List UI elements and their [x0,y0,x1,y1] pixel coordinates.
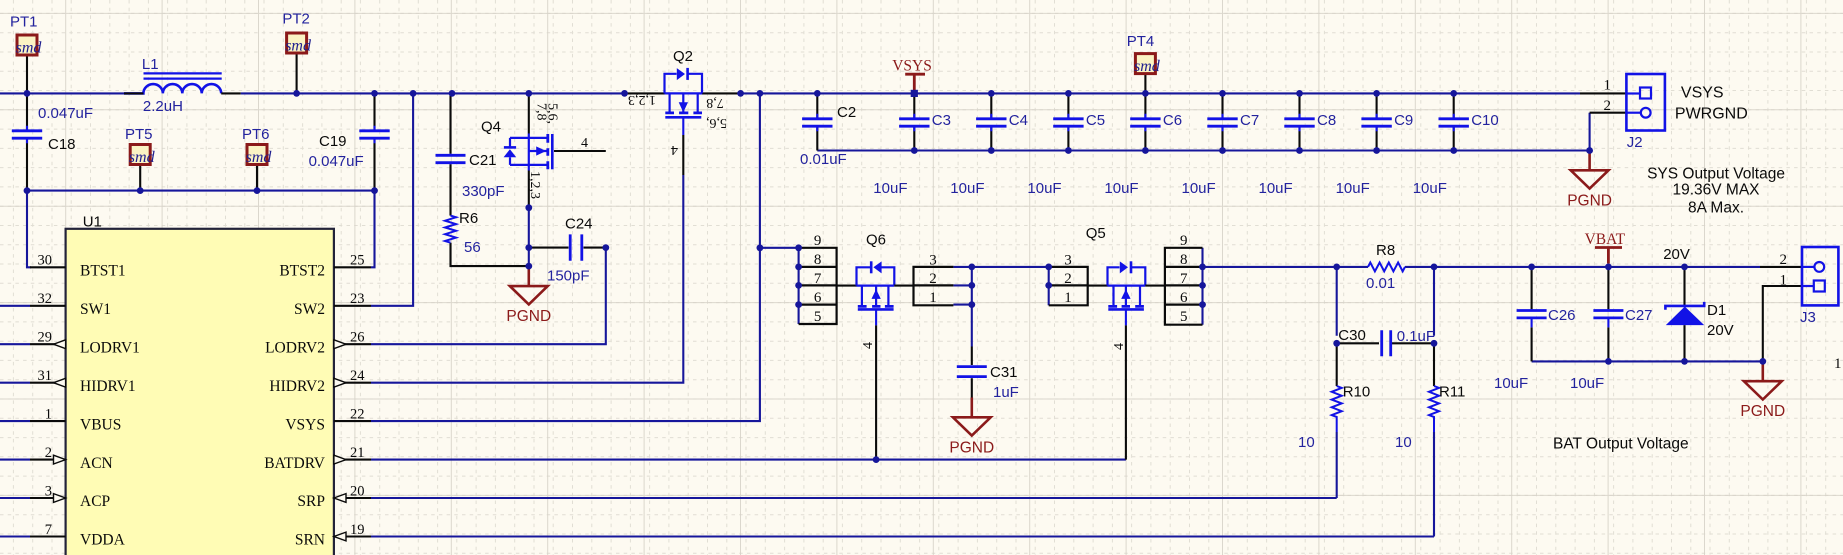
wire: PGND rail riser to J2 pin 2 [1589,113,1591,151]
capacitor C9 [1376,93,1378,150]
transistor Q2 (N-MOSFET rotated, high-side) [665,92,703,94]
svg-text:C7: C7 [1240,112,1259,129]
svg-text:PT2: PT2 [282,11,310,28]
svg-text:Q6: Q6 [866,231,886,248]
capacitor C31 1uF [957,367,987,377]
svg-text:4: 4 [1112,343,1127,350]
capacitor C3 [913,93,915,150]
capacitor C19 [373,93,375,190]
svg-text:21: 21 [350,445,365,461]
svg-text:26: 26 [350,330,365,346]
svg-text:smd: smd [129,149,156,166]
U1 pin 32 SW1 [30,305,66,307]
wire: VSYS pin 22 riser x=759.9 to top rail [371,93,760,421]
junction dots C30 row [1333,340,1340,347]
svg-text:C8: C8 [1317,112,1336,129]
svg-text:BTST2: BTST2 [279,263,325,280]
wire: main top rail (SW node / VSYS rail) y=93.4 [0,92,124,94]
capacitor C24 150pF [570,234,582,260]
svg-text:VSYS: VSYS [1681,85,1724,102]
svg-text:4: 4 [861,342,876,349]
U1 pin 1 VBUS [30,420,66,422]
svg-text:56: 56 [464,239,481,256]
junction dots left stack bus [795,244,802,251]
svg-text:0.047uF: 0.047uF [309,153,364,170]
wire: mid-stack node to Q5 left stack y=266.9 [972,266,1049,268]
svg-text:24: 24 [350,368,365,384]
junction dots on top rail [24,90,31,97]
capacitor C5 [1067,93,1069,150]
svg-text:10uF: 10uF [950,180,984,197]
wire: LODRV2 pin 26 to C24/Q4-gate node riser x=605.8 [371,248,606,345]
transistor Q5 (P-MOSFET pass, body diode right) [1108,285,1146,287]
U1 pin 3 ACP [30,497,66,499]
svg-text:BTST1: BTST1 [80,263,126,280]
svg-text:1: 1 [929,290,937,306]
svg-text:1: 1 [45,406,52,422]
U1 pin 23 SW2 [334,305,371,307]
resistor R8 0.01 [1368,263,1405,272]
capacitor C26 10uF [1517,311,1547,318]
svg-text:1: 1 [1834,356,1842,372]
junction dots battery sense rail [1333,264,1340,271]
junction dots right stack bus [1199,264,1206,271]
svg-text:VSYS: VSYS [892,58,932,75]
svg-text:1,2,3: 1,2,3 [628,92,656,107]
inductor L1 2.2uH [144,73,222,78]
svg-text:J2: J2 [1627,134,1643,151]
svg-text:C26: C26 [1548,307,1576,324]
svg-text:C9: C9 [1394,112,1413,129]
wire: right stack bus x=1202.5 (Q5 drain pins) [1201,248,1203,325]
U1 pin 30 BTST1 [30,266,66,268]
junction dots Q5 left stack bus [1045,264,1052,271]
op-amp/controller U1 (bq24715 style) body [66,229,334,555]
U1 output arrows LODRV1/HIDRV1 (left, pointing out) [54,340,66,349]
svg-text:SYS Output Voltage: SYS Output Voltage [1647,166,1785,183]
svg-text:29: 29 [38,330,53,346]
svg-text:SRN: SRN [295,532,325,549]
svg-text:10uF: 10uF [1336,180,1370,197]
wire: C26 riser [1531,267,1533,362]
U1 pin 7 VDDA [30,535,66,537]
test point PT4 (smd pad) [1135,54,1155,74]
wire: Q5 drain lead [1145,285,1165,287]
svg-text:Q4: Q4 [481,119,501,136]
wire: PT6 stub [256,165,258,191]
wire: battery bottom rail y=361.4 [1532,360,1763,362]
svg-text:0.1uF: 0.1uF [1397,328,1435,345]
wire: SW1 pin 32 to left edge [0,305,30,307]
svg-text:8A Max.: 8A Max. [1688,200,1744,217]
svg-text:Q2: Q2 [673,48,693,65]
wire: ACP pin 3 to left edge [0,497,30,499]
svg-text:0.047uF: 0.047uF [38,105,93,122]
svg-text:10uF: 10uF [1413,180,1447,197]
capacitor C10 [1453,93,1455,150]
U1 output arrows LODRV2/HIDRV2/BATDRV (right, pointing out) [334,340,346,349]
U1 pin 22 VSYS [334,420,371,422]
svg-text:PT6: PT6 [242,126,270,143]
svg-text:20V: 20V [1663,246,1690,263]
wire: Q4 drain from top rail x=528.8 [528,93,530,133]
svg-text:7: 7 [1180,271,1188,287]
connector J3 BAT output [1802,247,1838,305]
power port PGND (under Q4) [527,266,530,286]
svg-text:ACN: ACN [80,455,113,472]
svg-text:C10: C10 [1471,112,1499,129]
wire: PT2 stub [296,53,298,93]
wire: C24 left lead [529,247,569,249]
power port PGND (under J2) [1588,151,1591,171]
wire: PT4 stub [1144,74,1146,94]
svg-text:C24: C24 [565,215,593,232]
wire: VBAT sense rail y=266.9 from right stack to J3 [1203,266,1369,268]
wire: Q6 drain lead [894,285,913,287]
resistor R10 10 [1332,386,1342,432]
svg-text:C31: C31 [990,364,1018,381]
wire: LODRV1 pin 29 to left edge [0,343,30,345]
junction dots on C18/C19 link [24,187,31,194]
svg-text:VDDA: VDDA [80,532,126,549]
svg-text:R10: R10 [1343,384,1371,401]
svg-text:smd: smd [285,37,312,54]
wire: R8 left node riser to C30/R10 [1336,267,1338,336]
header right stack (pins 9,8,7,6,5 of Q5) [1165,248,1203,325]
svg-text:C5: C5 [1086,112,1105,129]
wire: C30 node down to R11 [1433,343,1435,386]
wire: C21/R6 riser from top rail x=450.5 [449,93,451,153]
svg-text:5: 5 [814,309,822,325]
header left stack (pins 3,2,1 of Q5) [1049,267,1088,305]
svg-text:C27: C27 [1625,307,1653,324]
svg-text:7: 7 [814,271,822,287]
wire: C30 node down to R10 [1336,343,1338,386]
power port VBAT [1595,248,1622,264]
svg-text:J3: J3 [1800,309,1816,326]
wire: R8 right node riser to C30/R11 [1433,267,1435,336]
svg-text:PWRGND: PWRGND [1675,106,1748,123]
svg-text:PT4: PT4 [1127,33,1155,50]
header mid stack (pins 3,2,1 of Q6) [914,267,954,305]
svg-text:7,8: 7,8 [706,95,724,110]
U1 pin 31 HIDRV1 [30,382,66,384]
svg-text:PGND: PGND [949,439,994,456]
svg-text:LODRV2: LODRV2 [265,339,325,356]
svg-text:SRP: SRP [297,493,325,510]
svg-text:10uF: 10uF [1104,180,1138,197]
test point PT5 (smd pad) [130,145,150,165]
capacitor C4 [990,93,992,150]
wire: J2 pin2 black lead [1590,112,1627,114]
resistor R6 56 [445,216,456,243]
wire: VBUS pin 1 to left edge [0,420,30,422]
svg-text:8: 8 [814,252,822,268]
svg-text:9: 9 [1180,233,1188,249]
svg-text:C21: C21 [469,152,497,169]
svg-text:U1: U1 [83,214,102,231]
wire: Q6 gate lead lower segment [875,325,877,459]
svg-text:5,6,: 5,6, [545,103,560,124]
svg-text:C2: C2 [837,104,856,121]
wire: HIDRV2 pin 24 to Q2 gate riser x=683.3 [371,175,683,383]
svg-text:1uF: 1uF [993,384,1019,401]
svg-text:9: 9 [814,233,822,249]
wire: Q2 drain pin [702,92,741,94]
svg-text:10: 10 [1395,434,1412,451]
svg-text:10uF: 10uF [1182,180,1216,197]
svg-text:LODRV1: LODRV1 [80,339,140,356]
capacitor C8 [1298,93,1300,150]
capacitor C27 10uF [1593,311,1623,318]
svg-text:1: 1 [1064,290,1072,306]
wire: Q5 source lead [1088,285,1108,287]
wire: Q2 source pin [625,92,665,94]
svg-text:19: 19 [350,522,365,538]
wire: C18/C19 bottom link y=190.6 with riser to BTST1 and BTST2 [27,190,375,192]
wire: ACN pin 2 to left edge [0,459,30,461]
svg-text:2: 2 [45,445,52,461]
junction dot VSYS branch [757,244,764,251]
capacitor C6 [1144,93,1146,150]
wire: Q6 source lead [837,285,857,287]
svg-text:L1: L1 [142,56,159,73]
svg-text:4: 4 [581,136,588,151]
svg-text:2: 2 [929,271,937,287]
svg-text:1: 1 [1604,78,1612,94]
wire: SRP pin 20 to R10 bottom y=498 [371,497,1337,499]
junction dots mid stack bus [968,264,975,271]
transistor Q6 (P-MOSFET pass, body diode left) [857,285,895,287]
power port PGND (under J3) [1762,361,1765,381]
svg-text:3: 3 [929,253,937,269]
svg-text:smd: smd [246,149,273,166]
wire: HIDRV1 pin 31 to left edge [0,382,30,384]
svg-text:150pF: 150pF [547,268,590,285]
U1 pin 29 LODRV1 [30,343,66,345]
svg-text:2.2uH: 2.2uH [143,98,183,115]
svg-text:19.36V MAX: 19.36V MAX [1672,182,1760,199]
test point PT2 (smd pad) [287,33,307,53]
wire: bottom capacitor-bank rail (PGND net) y=150.5 [817,149,1589,151]
junction dots on bottom capacitor rail [911,147,918,154]
svg-text:0.01: 0.01 [1366,275,1395,292]
svg-text:0.01uF: 0.01uF [800,151,847,168]
svg-text:2: 2 [1604,98,1612,114]
wire: SW2 pin 23 to top rail riser x=413 [371,93,413,305]
svg-text:10uF: 10uF [1027,180,1061,197]
svg-text:R6: R6 [459,210,478,227]
svg-text:HIDRV1: HIDRV1 [80,378,136,395]
junction dots at Q4 source node column [525,204,532,211]
svg-text:10uF: 10uF [873,180,907,197]
svg-text:31: 31 [38,368,53,384]
svg-text:2: 2 [1780,252,1788,268]
wire: Q4 source down to R6/C24/PGND node [528,171,530,208]
svg-text:VSYS: VSYS [285,416,325,433]
svg-text:3: 3 [1064,253,1072,269]
power port PGND (under C31) [970,398,973,418]
wire: VDDA pin 7 to left edge [0,535,30,537]
zener diode D1 20V [1665,302,1704,310]
svg-text:5: 5 [1180,309,1188,325]
svg-text:PGND: PGND [506,308,551,325]
svg-text:22: 22 [350,406,365,422]
svg-text:C18: C18 [48,136,76,153]
wire: R10 lower lead [1336,432,1338,498]
svg-text:23: 23 [350,291,365,307]
wire: VSYS branch to Q6 source header y=247.8 [760,247,799,249]
svg-text:30: 30 [38,253,53,269]
junction dots battery bottom rail [1605,358,1612,365]
resistor R11 10 [1429,386,1439,432]
svg-text:VBUS: VBUS [80,416,121,433]
wire: mid stack pin extensions and bus x=971.8 (Q6 drain / Q5 source net) [953,267,971,305]
wire: Q4 gate lead to x=605.8 [554,150,606,152]
svg-text:BATDRV: BATDRV [264,455,326,472]
svg-text:6: 6 [814,290,822,306]
svg-text:20: 20 [350,483,365,499]
svg-text:smd: smd [16,39,43,56]
svg-text:6: 6 [1180,290,1188,306]
U1 pin 26 LODRV2 [334,343,371,345]
junction dot C24/LODRV2 node [602,244,609,251]
svg-text:25: 25 [350,253,365,269]
U1 input arrows ACN/ACP (left, pointing in) [54,455,66,464]
transistor Q4 (N-MOSFET with body diode) [528,134,530,171]
svg-text:10uF: 10uF [1570,375,1604,392]
wire: PT5 stub [139,165,141,191]
svg-text:C19: C19 [319,133,347,150]
svg-text:D1: D1 [1707,302,1726,319]
svg-text:PGND: PGND [1567,192,1612,209]
wire: C24 right lead to riser [584,247,606,249]
svg-text:HIDRV2: HIDRV2 [269,378,325,395]
svg-text:2: 2 [1064,271,1072,287]
wire: C30 left lead [1337,342,1379,344]
header left stack (pins 9,8,7,6,5 of Q6) [799,248,837,324]
svg-text:SW1: SW1 [80,301,111,318]
svg-text:7: 7 [45,522,52,538]
node VSYS junction (square) [911,90,918,97]
svg-text:20V: 20V [1707,322,1734,339]
wire: R11 lower lead [1433,432,1435,537]
svg-text:R11: R11 [1439,384,1465,401]
svg-text:Q5: Q5 [1086,225,1106,242]
capacitor C2 [816,93,818,150]
test point PT6 (smd pad) [247,145,267,165]
svg-text:32: 32 [38,291,53,307]
svg-text:10uF: 10uF [1259,180,1293,197]
svg-text:10uF: 10uF [1494,375,1528,392]
wire: D1 riser [1683,267,1685,362]
U1 pin 20 SRP [334,497,371,499]
junction dot Q6 gate on BATDRV net [873,456,880,463]
svg-text:C30: C30 [1338,327,1366,344]
svg-text:C4: C4 [1009,112,1028,129]
wire: left stack bus (Q6 source pins 9..5) x=798.6 [798,248,800,324]
U1 pin 2 ACN [30,459,66,461]
U1 input arrows SRP/SRN (right, pointing in) [334,494,346,503]
svg-text:VBAT: VBAT [1585,231,1626,248]
wire: C31 bottom lead to PGND [971,378,973,397]
wire: C31 top lead from mid-stack bus [971,347,973,366]
U1 pin 19 SRN [334,535,371,537]
capacitor C7 [1221,93,1223,150]
svg-text:4: 4 [671,142,678,157]
svg-text:BAT Output Voltage: BAT Output Voltage [1553,436,1689,453]
svg-text:1,2,3: 1,2,3 [527,171,542,199]
svg-text:PT1: PT1 [10,14,38,31]
wire: J3 pin2 lead [1760,266,1802,268]
wire: Q4 PGND stem upper [528,265,530,267]
wire: PT1 stub [26,55,28,93]
svg-text:5,6,: 5,6, [706,115,727,130]
wire: C27 riser [1607,267,1609,362]
wire: J2 pin1 black lead [1580,92,1626,94]
wire: C30 right lead [1392,342,1434,344]
svg-text:330pF: 330pF [462,183,505,200]
svg-text:SW2: SW2 [294,301,325,318]
svg-text:R8: R8 [1376,242,1395,259]
U1 pin 21 BATDRV [334,459,371,461]
wire: R6 bottom to Q4 source node y=266.1 [451,243,529,266]
wire: BATDRV pin 21 to Q6/Q5 gates y=459.6 [371,459,1126,461]
power port VSYS (net label at C3) [905,74,925,90]
connector J2 VSYS/PWRGND [1626,74,1665,131]
svg-text:10: 10 [1298,434,1315,451]
wire: Q5 gate lead lower segment [1125,325,1127,459]
svg-text:ACP: ACP [80,493,110,510]
svg-text:PGND: PGND [1740,403,1785,420]
wire: J3 pin1 lead down to bottom rail [1763,286,1802,361]
wire: SRN pin 19 to R11 bottom y=536.5 [371,535,1434,537]
svg-text:8: 8 [1180,252,1188,268]
capacitor C30 0.1uF [1382,330,1391,356]
svg-text:1: 1 [1780,273,1788,289]
svg-text:smd: smd [1134,58,1161,75]
capacitor C21 330pF [436,155,466,162]
U1 pin 25 BTST2 [334,266,371,268]
svg-text:PT5: PT5 [125,126,153,143]
svg-text:C3: C3 [932,112,951,129]
U1 pin 24 HIDRV2 [334,382,371,384]
svg-text:C6: C6 [1163,112,1182,129]
capacitor C18 [26,93,28,190]
svg-text:3: 3 [45,483,52,499]
test point PT1 (smd pad) [17,35,37,55]
wire: Q5 left stack bus x=1048.7 [1048,267,1050,305]
